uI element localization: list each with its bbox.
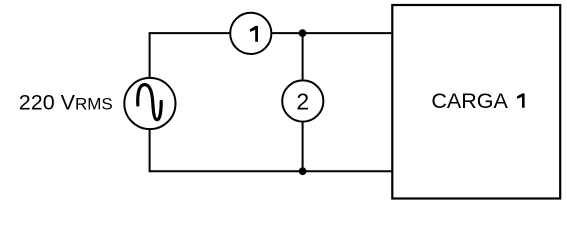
wire: top rail from source to meter 1 bbox=[149, 32, 231, 34]
junction node A bbox=[299, 29, 307, 37]
junction node B bbox=[299, 167, 307, 175]
svg-text:220 VRMS: 220 VRMS bbox=[19, 91, 113, 115]
wire: bottom rail from source to node B bbox=[149, 170, 303, 172]
ac source V1 bbox=[124, 78, 175, 129]
wire: source V1 bottom lead bbox=[149, 128, 151, 171]
meter 2 bbox=[282, 80, 323, 121]
wire: node A to meter 2 bbox=[302, 33, 304, 82]
svg-text:2: 2 bbox=[296, 89, 309, 115]
wire: node B to load CARGA 1 bbox=[303, 170, 394, 172]
svg-text:CARGA: CARGA bbox=[431, 89, 508, 113]
wire: node A to load CARGA 1 bbox=[303, 32, 394, 34]
meter 1 bbox=[230, 13, 271, 54]
load CARGA 1 bbox=[392, 5, 560, 199]
wire: meter 1 to node A bbox=[271, 32, 303, 34]
wire: meter 2 to node B bbox=[302, 121, 304, 172]
wire: source V1 top lead bbox=[149, 33, 151, 79]
